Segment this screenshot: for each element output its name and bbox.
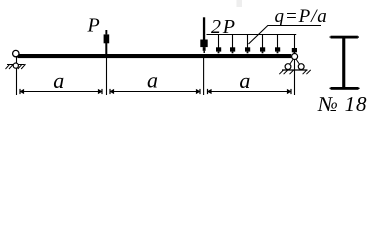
I-beam bottom flange bbox=[331, 87, 359, 90]
dim arrow left of segment 1 bbox=[19, 89, 24, 94]
svg-text:a: a bbox=[147, 68, 158, 93]
dimension extension line under P bbox=[105, 43, 107, 58]
dim arrow right of segment 3 bbox=[287, 89, 292, 94]
I-beam cross-section: top flange bbox=[331, 36, 358, 39]
svg-text:№ 18: № 18 bbox=[317, 92, 367, 116]
I-beam web bbox=[342, 39, 345, 88]
dim arrow left of segment 2 bbox=[109, 89, 114, 94]
support B roller circle right bbox=[298, 64, 304, 70]
svg-text:q=P/a: q=P/a bbox=[275, 6, 328, 27]
dim arrow right of segment 1 bbox=[98, 89, 103, 94]
load arrow 3 bbox=[245, 35, 250, 54]
dim arrow right of segment 2 bbox=[196, 89, 201, 94]
support A hinge circle bbox=[13, 50, 19, 56]
distributed load top line bbox=[207, 34, 297, 36]
leader line to q label bbox=[249, 26, 322, 45]
force P arrow (upward) bbox=[105, 30, 107, 34]
dimension extension line under 2P bbox=[203, 58, 205, 95]
support A roller circle bbox=[13, 63, 18, 68]
beam bbox=[18, 54, 292, 58]
dimension line segment 1 bbox=[22, 91, 100, 93]
load arrow 6 (at support B) bbox=[292, 48, 297, 54]
svg-text:a: a bbox=[239, 68, 250, 93]
support A ground line bbox=[7, 64, 25, 66]
support B roller circle left bbox=[285, 64, 291, 70]
stray light dot bbox=[237, 0, 243, 7]
support B hatching bbox=[279, 70, 283, 74]
load arrow 2 bbox=[230, 35, 235, 54]
dimension line segment 3 bbox=[210, 91, 290, 93]
support B legs bbox=[288, 57, 294, 67]
dimension line segment 2 bbox=[112, 91, 198, 93]
load arrow 1 bbox=[216, 35, 221, 54]
dim arrow left of segment 3 bbox=[207, 89, 212, 94]
load arrow 5 bbox=[275, 35, 280, 54]
load arrow 4 bbox=[260, 35, 265, 54]
dimension extension line left (support A axis) bbox=[16, 56, 18, 95]
force 2P arrow (downward) bbox=[203, 17, 205, 39]
support A hatching bbox=[6, 64, 10, 69]
support B ground line bbox=[282, 69, 308, 71]
dimension extension line right (support B axis) bbox=[294, 34, 296, 95]
svg-text:P: P bbox=[87, 15, 100, 37]
support B hinge circle bbox=[292, 54, 298, 60]
svg-text:a: a bbox=[53, 68, 64, 93]
